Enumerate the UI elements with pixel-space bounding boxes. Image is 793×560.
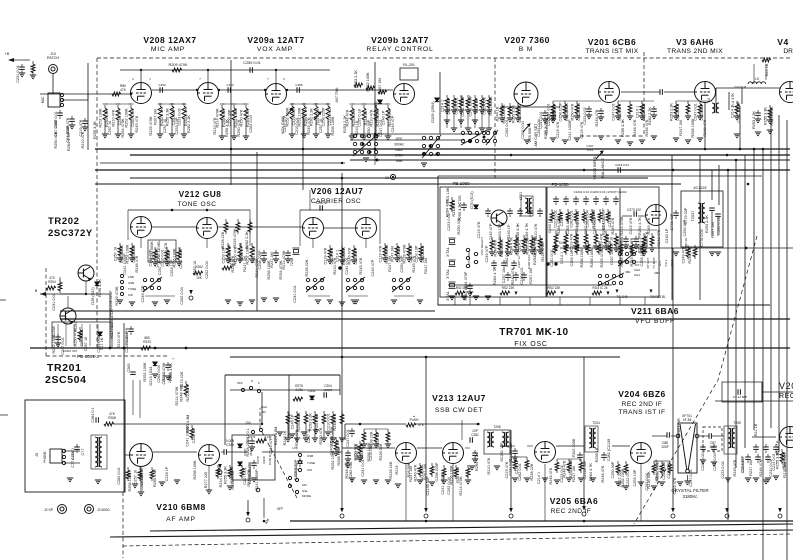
svg-text:J3: J3 [35, 453, 39, 457]
svg-text:RG4 IC 2k: RG4 IC 2k [593, 286, 608, 290]
wire agc down drop [247, 500, 249, 512]
svg-text:R254 470K: R254 470K [279, 260, 283, 279]
svg-text:10K: 10K [196, 276, 203, 280]
svg-text:C223 0.02: C223 0.02 [642, 103, 646, 121]
jack J10 PATCH [49, 65, 58, 74]
svg-text:XF-56: XF-56 [683, 418, 692, 422]
svg-text:CH 2: CH 2 [670, 259, 674, 266]
dots vfo out [546, 262, 549, 265]
vfo c705 cap [463, 202, 465, 205]
svg-text:EXT: EXT [658, 260, 662, 266]
wire tr201 base link [67, 296, 69, 308]
svg-text:C264 0.1: C264 0.1 [91, 407, 95, 422]
svg-text:C259 0.01: C259 0.01 [243, 61, 261, 65]
wire right bus v8 [786, 120, 788, 560]
tube V205 6BA6 [535, 442, 556, 463]
diode D209 [435, 98, 439, 102]
svg-text:10P: 10P [472, 429, 478, 433]
wire det section top bus [230, 356, 620, 358]
wire v208b plate drop [207, 70, 209, 83]
wire mode cluster drop [263, 498, 265, 518]
wire bottom long af [262, 451, 342, 453]
svg-text:CH2: CH2 [634, 268, 640, 272]
wire right bus v2 [735, 160, 737, 468]
svg-text:R253 2.2K: R253 2.2K [752, 111, 756, 129]
svg-text:R264 4.7K: R264 4.7K [67, 133, 71, 151]
resistor R202 10K [222, 266, 232, 270]
svg-text:C273 100: C273 100 [627, 208, 641, 212]
svg-text:MODE: MODE [302, 494, 311, 498]
capacitor C264 0.1 [96, 417, 98, 423]
transformer T audio output [95, 437, 102, 467]
svg-text:R264 4.7K: R264 4.7K [475, 453, 479, 471]
v205 grid wire [527, 445, 533, 447]
svg-text:R271: R271 [248, 435, 256, 439]
capacitor C1258 [57, 334, 59, 337]
svg-text:C258 225P: C258 225P [109, 290, 113, 309]
diode D202 [378, 100, 382, 104]
wire bottom slanted line 1 [150, 524, 793, 531]
wire agc verticals [224, 375, 226, 445]
wire vertical x511 [510, 430, 512, 510]
junction dots tone bus [171, 209, 174, 212]
svg-text:C1201 0.01 C1203 0.01 (1700)T: C1201 0.01 C1203 0.01 (1700)T C1202 [574, 190, 627, 194]
svg-text:C231 0.01: C231 0.01 [97, 335, 101, 353]
wire main B+ bus 2 [130, 154, 790, 156]
svg-text:J2 SP: J2 SP [44, 508, 54, 512]
svg-text:F: F [258, 381, 260, 385]
osc band extra grounds [117, 300, 123, 304]
osc vertical drops to bus [140, 238, 142, 248]
arrow left terminal B [40, 292, 46, 296]
svg-text:C231 0.01: C231 0.01 [361, 459, 365, 477]
box rec coupling [722, 382, 762, 402]
svg-text:R207 1M: R207 1M [355, 444, 359, 459]
wire bus 6 [95, 183, 681, 185]
svg-text:STBY: STBY [395, 154, 405, 158]
svg-text:R254 470K: R254 470K [231, 470, 235, 489]
svg-text:R252 100K: R252 100K [125, 108, 129, 127]
tube V212 GU8 tone osc b [197, 218, 218, 239]
resistor R-4 47K [736, 101, 738, 104]
svg-text:C249 47P: C249 47P [283, 115, 287, 132]
box AGC rectifier [232, 435, 275, 480]
svg-text:C223 0.02: C223 0.02 [721, 461, 725, 479]
svg-text:470: 470 [49, 276, 55, 280]
wire det coupling [417, 447, 442, 449]
svg-text:R244 1K: R244 1K [219, 472, 223, 487]
mixer V201 components [552, 101, 554, 104]
svg-text:C258 225P: C258 225P [559, 102, 563, 121]
svg-text:C256: C256 [295, 83, 303, 87]
svg-text:R256 100K: R256 100K [590, 248, 594, 267]
svg-text:R264 4.7K: R264 4.7K [493, 267, 497, 285]
relay section diodes and resistors [354, 83, 363, 87]
volt reg box inner [57, 324, 59, 346]
dashed boundary around V201 mixer [643, 52, 645, 136]
wire right bus v1 [727, 170, 729, 520]
svg-text:X'TAL: X'TAL [446, 247, 450, 257]
bm extra grounds [550, 138, 556, 142]
t205 grounds [725, 478, 731, 482]
svg-text:R253 2.2K: R253 2.2K [309, 413, 313, 431]
svg-text:R250 47K: R250 47K [571, 103, 575, 120]
relay cluster longer leads [446, 107, 448, 128]
v210 cathode components [127, 467, 129, 470]
svg-text:FIX: FIX [635, 263, 640, 267]
wire bus 3 [350, 159, 790, 161]
svg-text:S: S [251, 379, 253, 383]
svg-text:X'TAL: X'TAL [446, 269, 450, 279]
svg-text:PATCH: PATCH [47, 56, 60, 60]
wire v208a plate drop [140, 70, 142, 83]
dashed boundary PB-1001-2 board [45, 268, 47, 356]
svg-text:R252 100K: R252 100K [621, 468, 625, 487]
diode S17 [98, 332, 102, 336]
tube V206 12AU7 carrier osc a [303, 218, 324, 239]
svg-text:R273 22K: R273 22K [180, 371, 184, 388]
wire det top bus [345, 423, 406, 425]
svg-text:R210 47K: R210 47K [117, 331, 121, 348]
v205 grounds [512, 478, 518, 482]
junction dots bus band right [704, 148, 707, 151]
v205 grid components [514, 457, 516, 460]
tube V201 6CB6 pentode [599, 82, 620, 103]
svg-text:C219 47K: C219 47K [477, 221, 481, 238]
svg-text:R229 470K: R229 470K [239, 242, 243, 261]
switch S4d carrier [306, 277, 325, 292]
label C49 wave marks [616, 290, 619, 294]
svg-text:R253 2.2K: R253 2.2K [354, 70, 358, 88]
svg-text:C778 40P: C778 40P [670, 213, 674, 230]
svg-text:680: 680 [144, 336, 150, 340]
svg-text:C257 10: C257 10 [307, 429, 311, 443]
capacitor C205 0.01 [347, 450, 349, 453]
dashed slanted bottom boundary [123, 534, 790, 546]
svg-text:R24 1K: R24 1K [765, 63, 769, 76]
wire vertical x462 det [461, 420, 463, 440]
svg-text:R245 47K: R245 47K [733, 459, 737, 476]
mic input wires detail [52, 74, 54, 94]
v211 cathode components [643, 233, 645, 236]
svg-text:R207 1M: R207 1M [711, 222, 715, 237]
bottom extra caps right [702, 444, 704, 447]
svg-text:D241: D241 [308, 389, 316, 393]
terminal arrow output [725, 508, 729, 518]
v211 plate coil T2037 inside C1125 box [698, 203, 705, 223]
capacitor C77 0.03 [76, 444, 78, 447]
svg-text:C240 1P: C240 1P [548, 218, 552, 233]
svg-text:C219 47K: C219 47K [556, 121, 560, 138]
pb1060 extra caps [493, 260, 495, 263]
svg-text:CH 1: CH 1 [664, 259, 668, 266]
resistor R275 2.2M [293, 397, 303, 401]
af vertical wires pair [132, 380, 134, 415]
box regulator sub [52, 322, 112, 348]
svg-text:D213 1S34: D213 1S34 [149, 367, 153, 386]
vfo crystals [449, 238, 456, 244]
svg-text:C214 1: C214 1 [636, 106, 640, 118]
svg-text:C202 0.04: C202 0.04 [645, 473, 649, 491]
wire vertical x231 [230, 60, 232, 185]
svg-text:C247 0.01: C247 0.01 [520, 267, 524, 285]
tube V204 6BZ6 [631, 443, 652, 464]
svg-text:R268: R268 [108, 416, 116, 420]
svg-text:C2.12 68P: C2.12 68P [733, 395, 747, 399]
svg-text:C231 0.01: C231 0.01 [509, 458, 513, 476]
svg-text:C77: C77 [81, 449, 85, 456]
svg-text:R248 47K: R248 47K [657, 229, 661, 246]
svg-text:R253 2.2K: R253 2.2K [565, 103, 569, 121]
svg-text:R207 1M: R207 1M [154, 109, 158, 124]
svg-text:R248 47K: R248 47K [231, 255, 235, 272]
svg-text:R246 47K: R246 47K [595, 109, 599, 126]
svg-text:R246 47K: R246 47K [688, 246, 692, 263]
svg-text:R247 1M: R247 1M [243, 256, 247, 271]
svg-text:C241 1000P: C241 1000P [179, 247, 183, 269]
svg-text:R248 47K: R248 47K [135, 255, 139, 272]
dot carrier junction [338, 266, 342, 270]
svg-text:C223 0.02: C223 0.02 [560, 465, 564, 483]
svg-text:0.005: 0.005 [226, 439, 234, 443]
svg-text:R228 22K: R228 22K [389, 461, 393, 478]
osc switch links [145, 295, 175, 297]
det grounds [361, 480, 367, 484]
resistor R268 47K [104, 422, 114, 426]
svg-text:C253 10P: C253 10P [741, 455, 745, 472]
coil L58 [298, 453, 301, 456]
svg-text:3I8c: 3I8c [654, 271, 660, 275]
svg-text:J10: J10 [50, 52, 56, 56]
wire right bus v3 [744, 155, 746, 448]
svg-text:C253 10P: C253 10P [640, 249, 644, 266]
wire tr201 junctions [109, 347, 112, 350]
ground relay area [363, 158, 369, 162]
mode cluster components [287, 411, 289, 414]
svg-text:D209 (2594): D209 (2594) [431, 101, 435, 123]
svg-text:C219 47K: C219 47K [324, 247, 328, 264]
svg-text:S2: S2 [262, 410, 266, 414]
svg-text:C255 0.18: C255 0.18 [717, 217, 721, 235]
svg-text:C249 47P: C249 47P [485, 245, 489, 262]
svg-text:V208 12AX7: V208 12AX7 [143, 35, 196, 45]
svg-text:R245 47K: R245 47K [511, 267, 515, 284]
t204 caps [579, 452, 581, 455]
tone osc grid components [119, 243, 121, 246]
svg-text:C257 10: C257 10 [192, 429, 196, 443]
tone osc cathode components [154, 247, 156, 250]
coil L4 [712, 103, 719, 113]
svg-text:R210 47K: R210 47K [112, 109, 116, 126]
svg-text:47K: 47K [120, 88, 127, 92]
svg-text:C202 0.04: C202 0.04 [783, 453, 787, 471]
capacitor C85 mic bypass [84, 118, 86, 121]
terminal arrow output [582, 506, 586, 516]
wire tr202 collector [85, 281, 87, 294]
svg-text:C249 47P: C249 47P [371, 259, 375, 276]
svg-text:C262 0.01: C262 0.01 [676, 103, 680, 121]
vfo out components [625, 236, 627, 239]
svg-text:RC53 100K: RC53 100K [330, 426, 334, 446]
svg-text:R245 47K: R245 47K [135, 115, 139, 132]
svg-text:R229 470K: R229 470K [115, 286, 119, 305]
svg-text:C247 0.01: C247 0.01 [346, 429, 350, 447]
svg-text:C241 1000P: C241 1000P [255, 469, 259, 491]
switch S4d2 [346, 277, 365, 292]
svg-text:TUNE: TUNE [128, 287, 136, 291]
svg-text:C240 1P: C240 1P [507, 224, 511, 239]
switch fix channel [618, 251, 637, 266]
svg-text:R247 1M: R247 1M [679, 120, 683, 135]
switch area filled dots [362, 143, 365, 146]
mode grounds [277, 432, 283, 436]
t205 caps [474, 450, 476, 453]
transistor TR701 oscillator [491, 210, 507, 226]
tone osc out caps [263, 250, 265, 253]
svg-text:LSB: LSB [128, 275, 134, 279]
pb1038 extra row b [554, 241, 556, 244]
svg-text:R246 47K: R246 47K [549, 467, 553, 484]
coupling capacitor C254 [228, 87, 230, 93]
svg-text:R245 47K: R245 47K [307, 117, 311, 134]
svg-text:R254 470K: R254 470K [121, 118, 125, 137]
svg-text:V212 GU8: V212 GU8 [179, 189, 222, 199]
wire carrier osc plate bus [300, 209, 380, 211]
af grounds [67, 478, 73, 482]
svg-text:C241 1000P: C241 1000P [568, 119, 572, 141]
svg-text:C250 30P: C250 30P [400, 255, 404, 272]
el cap C213 20WV [253, 460, 255, 463]
svg-text:C257 10: C257 10 [319, 119, 323, 133]
audio band horizontal links [105, 103, 131, 105]
vox ptt switch [422, 135, 441, 158]
svg-text:R264 4.7K: R264 4.7K [525, 223, 529, 241]
label 02 terminal [256, 488, 260, 492]
svg-text:R245 47K: R245 47K [611, 217, 615, 234]
wire vfo bottom bus [448, 284, 612, 286]
svg-text:▲: ▲ [413, 415, 416, 418]
det mid components [443, 465, 445, 468]
svg-text:(B94): (B94) [249, 448, 253, 455]
transformer T205 [728, 428, 735, 448]
vfo rt01 resistor [451, 197, 453, 200]
svg-text:R-4 47K: R-4 47K [731, 93, 735, 107]
box relay RL-201 [400, 68, 418, 80]
svg-text:TRANS IST IF: TRANS IST IF [619, 409, 666, 416]
ground D213 [152, 374, 158, 378]
carrier crystal X'tal [293, 248, 300, 254]
svg-text:C202 0.04: C202 0.04 [249, 115, 253, 133]
svg-text:TX B RX: TX B RX [652, 257, 656, 269]
svg-text:RL-201: RL-201 [403, 63, 415, 67]
capacitor C24 0.01 [653, 106, 655, 109]
svg-text:C253 10P: C253 10P [700, 103, 704, 120]
svg-text:R255 3.3K: R255 3.3K [764, 107, 768, 125]
svg-text:C705: C705 [458, 195, 462, 204]
switch S4b tone [143, 277, 162, 292]
svg-text:L4: L4 [707, 98, 711, 102]
svg-text:R255 3.3K: R255 3.3K [516, 223, 520, 241]
top right corner links [753, 64, 755, 84]
svg-text:C202 0.04: C202 0.04 [447, 477, 451, 495]
pb1038 second row [555, 231, 557, 234]
svg-text:R210 47K: R210 47K [81, 131, 85, 148]
capacitor C265 [299, 458, 301, 461]
wire bottom IF bus [290, 520, 793, 522]
svg-text:C202 0.04: C202 0.04 [577, 103, 581, 121]
wire carrier variable cap line [309, 190, 311, 210]
bm section resistors [501, 103, 503, 106]
svg-text:V209b 12AT7: V209b 12AT7 [371, 35, 429, 45]
wire regulator b line [40, 293, 110, 295]
c1125 box caps [709, 208, 715, 210]
svg-text:C257 10: C257 10 [114, 247, 118, 261]
v205 out components [556, 459, 558, 462]
box C1125 trap [681, 191, 723, 247]
svg-text:T2037: T2037 [691, 211, 695, 222]
svg-text:C262 0.01: C262 0.01 [570, 210, 574, 228]
svg-text:R264 4.7K: R264 4.7K [638, 217, 642, 235]
wire coupling V209a out [287, 89, 393, 91]
switch terminals tone 2 [120, 274, 123, 277]
terminal arrow output [424, 508, 428, 518]
svg-text:C249 47P: C249 47P [149, 249, 153, 266]
extra junction dots audio [130, 93, 132, 95]
svg-text:V201 6CB6: V201 6CB6 [588, 37, 636, 47]
wire v211 grid [622, 215, 632, 217]
svg-text:C262 0.01: C262 0.01 [505, 119, 509, 137]
af drop wires [140, 467, 142, 492]
tone osc plate components [227, 243, 229, 246]
svg-text:R228 22K: R228 22K [305, 259, 309, 276]
carrier osc components 2 [384, 243, 386, 246]
svg-text:V205 6BA6: V205 6BA6 [550, 496, 598, 506]
svg-text:R247 1M: R247 1M [749, 460, 753, 475]
capacitor C81 0.1 [588, 106, 590, 109]
svg-text:C262 0.01: C262 0.01 [518, 463, 522, 481]
switch S4e [486, 130, 498, 145]
svg-text:P202 100K: P202 100K [572, 438, 576, 457]
resistor PuSH 47K [406, 423, 416, 427]
svg-text:R229 470K: R229 470K [770, 106, 774, 125]
wire rec vertical [761, 382, 763, 402]
svg-text:V4: V4 [777, 37, 788, 47]
svg-text:300Hz: 300Hz [394, 143, 404, 147]
osc band connecting verticals [127, 210, 129, 240]
svg-text:C219 47K: C219 47K [629, 217, 633, 234]
svg-text:V206 12AU7: V206 12AU7 [311, 186, 364, 196]
terminal tone out [189, 290, 193, 300]
tube V207 7360 beam modulator [514, 82, 538, 106]
wire V3 plate to V4 [716, 87, 780, 89]
svg-text:R214 470K: R214 470K [175, 386, 179, 405]
svg-text:R214 1P: R214 1P [776, 440, 780, 455]
wire vox bottom bus [100, 162, 345, 164]
wire right bus v7 [778, 115, 780, 452]
svg-text:R256 100K: R256 100K [580, 248, 584, 267]
terminal 10 [390, 174, 395, 179]
svg-text:V211 6BA6: V211 6BA6 [631, 306, 679, 316]
svg-text:R256 100K: R256 100K [193, 460, 197, 479]
svg-text:V210 6BM8: V210 6BM8 [156, 502, 205, 512]
svg-text:C250 30P: C250 30P [447, 97, 451, 114]
svg-text:R207 1M: R207 1M [529, 268, 533, 283]
svg-text:C776 0.02: C776 0.02 [700, 229, 704, 247]
svg-text:PHONE: PHONE [43, 451, 47, 462]
resistor R273 22K [185, 381, 187, 384]
svg-text:C54 470P: C54 470P [467, 251, 471, 264]
wire osc section bus 2 [60, 318, 790, 320]
